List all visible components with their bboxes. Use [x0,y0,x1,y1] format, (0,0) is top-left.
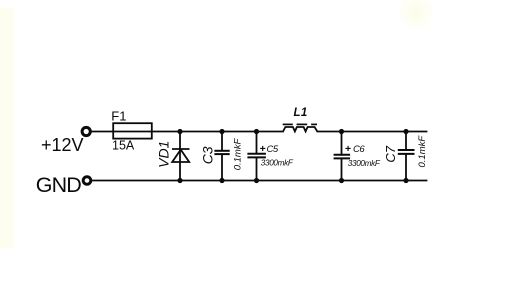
terminal +12V [82,127,90,135]
L1 core dashes [283,123,317,125]
svg-text:3300mkF: 3300mkF [261,159,294,168]
svg-text:C7: C7 [383,145,398,162]
capacitor C5 [247,154,266,158]
svg-text:+: + [260,143,266,155]
node VD1 top [177,129,182,134]
wire C3 vertical bottom [221,155,223,181]
node C3 top [219,129,224,134]
svg-text:0.1mkF: 0.1mkF [417,135,428,168]
svg-text:+: + [345,143,351,155]
wire C5 vertical top [256,132,258,154]
svg-text:C3: C3 [200,146,216,164]
fuse F1 [113,123,152,138]
wire top rail left (terminal to L1 start) [92,131,284,133]
junction dots [177,129,408,183]
node C6 bottom [339,178,344,183]
node C6 top [339,129,344,134]
faint left edge tint [0,8,14,248]
svg-text:15A: 15A [112,138,135,152]
wire C7 vertical top [405,132,407,151]
svg-text:VD1: VD1 [155,141,171,168]
wire C6 vertical bottom [341,159,343,181]
wire C6 vertical top [341,132,343,155]
svg-text:C6: C6 [353,144,365,155]
capacitor C7 [398,150,415,154]
wire VD1 vertical [179,132,181,181]
node C7 top [403,129,408,134]
svg-text:F1: F1 [111,109,126,124]
faint smudge top right [396,0,436,32]
capacitor C6 [334,155,351,159]
wire C3 vertical top [221,132,223,151]
wire top rail right (L1 end to right end) [318,131,427,133]
svg-text:GND: GND [36,173,81,197]
svg-text:+12V: +12V [41,135,84,155]
inductor L1 [283,127,317,132]
wire bottom rail [92,180,427,182]
node C5 bottom [254,178,259,183]
wire C7 vertical bottom [405,155,407,181]
svg-text:0.1mkF: 0.1mkF [232,137,243,170]
svg-text:C5: C5 [267,144,279,155]
node C7 bottom [403,178,408,183]
wire C5 vertical bottom [256,158,258,181]
capacitor C3 [214,151,229,154]
node C3 bottom [219,178,224,183]
diode VD1 [172,149,190,162]
node VD1 bottom [177,178,182,183]
svg-text:3300mkF: 3300mkF [348,159,381,168]
node C5 top [254,129,259,134]
svg-text:L1: L1 [294,107,308,119]
terminal GND [83,177,91,185]
